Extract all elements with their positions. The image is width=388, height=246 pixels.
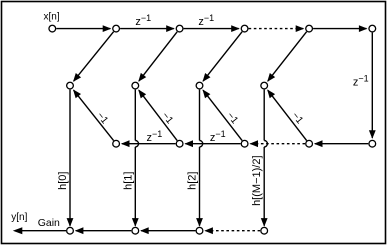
svg-text:−1: −1 [94,110,110,126]
svg-text:h[2]: h[2] [187,172,199,190]
svg-text:h[1]: h[1] [122,172,134,190]
svg-text:z−1: z−1 [210,129,226,144]
svg-text:z−1: z−1 [147,129,163,144]
svg-text:h[0]: h[0] [57,172,69,190]
svg-text:z−1: z−1 [353,73,369,88]
svg-text:z−1: z−1 [198,13,214,28]
svg-text:x[n]: x[n] [44,12,60,23]
svg-text:−1: −1 [224,110,240,126]
svg-text:Gain: Gain [38,217,60,229]
svg-text:z−1: z−1 [135,13,151,28]
svg-text:−1: −1 [289,110,305,126]
svg-text:y[n]: y[n] [11,212,27,223]
svg-text:−1: −1 [159,110,175,126]
svg-text:h[(M−1)/2]: h[(M−1)/2] [251,155,263,205]
